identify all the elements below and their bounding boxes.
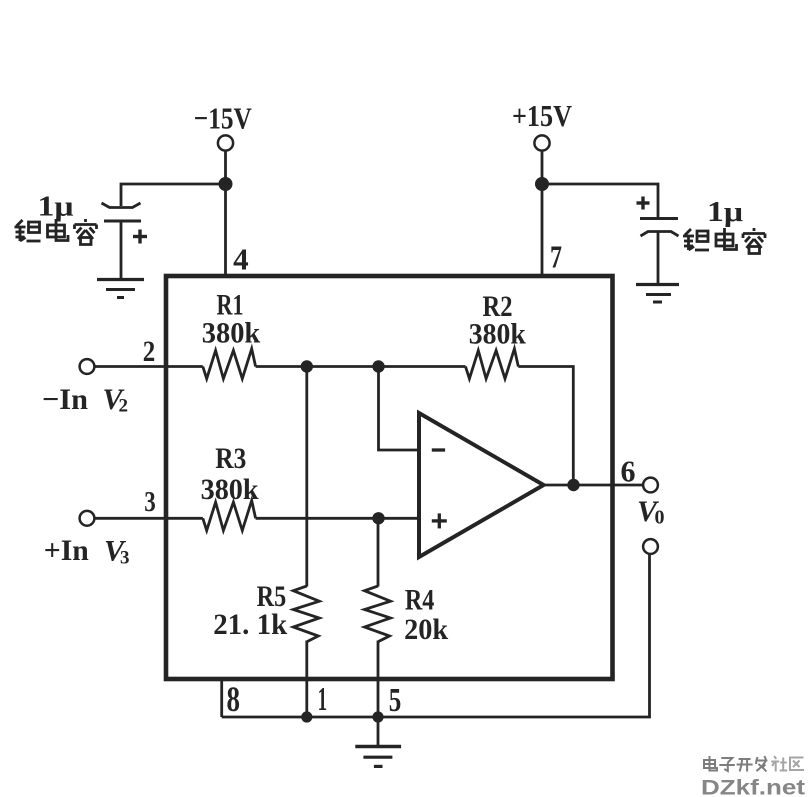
wire R5 to bottom rail: [305, 641, 308, 718]
wire pin2 to R1: [94, 365, 202, 368]
svg-text:+In: +In: [44, 534, 89, 567]
resistor R3: [203, 501, 256, 531]
label R1 value 380k: [202, 317, 261, 350]
watermark text dianzi kaifa shequ (Chinese, gray): [704, 756, 804, 772]
wire op-amp output to pin 6: [544, 484, 644, 487]
ground (left, C1): [97, 280, 144, 298]
label R2: [483, 290, 513, 323]
wire bottom rail to ground: [377, 717, 380, 746]
resistor R4: [365, 586, 391, 642]
wire +15V rail to C2: [542, 184, 658, 218]
svg-text:+15V: +15V: [512, 98, 573, 133]
node C junction: [372, 512, 384, 524]
svg-text:R3: R3: [215, 442, 246, 475]
svg-text:3: 3: [120, 548, 130, 569]
wire C1 to ground: [120, 221, 123, 279]
wire node C down to R4: [377, 518, 380, 586]
wire node A down to R5: [305, 367, 308, 587]
pin 4 label: [233, 242, 249, 277]
svg-text:R4: R4: [405, 584, 435, 617]
wire R4 to bottom rail: [377, 641, 380, 718]
pin 8 label: [227, 679, 241, 719]
pin 2 label: [143, 335, 156, 368]
svg-text:1μ: 1μ: [38, 191, 75, 223]
svg-text:1: 1: [318, 681, 328, 718]
junction R5 bottom rail: [301, 711, 312, 722]
label V0: [637, 495, 665, 529]
label C1 tantalum capacitor (Chinese): [15, 219, 97, 245]
wire node B to op-amp - input: [379, 367, 420, 451]
junction +15V rail: [535, 177, 549, 191]
wire -15V rail to C1: [121, 184, 226, 206]
ground (bottom): [355, 747, 401, 767]
svg-text:0: 0: [655, 507, 665, 529]
label C2 value 1u: [707, 196, 744, 228]
ground (right, C2): [636, 285, 679, 303]
svg-text:20k: 20k: [404, 613, 448, 646]
label R4 value 20k: [404, 613, 448, 646]
svg-text:−In: −In: [42, 383, 88, 416]
label R5: [257, 580, 287, 613]
svg-text:DZkf.net: DZkf.net: [701, 777, 805, 797]
power terminal +15V: [512, 98, 573, 151]
wire R1 to R2 (summing node): [256, 365, 466, 368]
label +In V3: [44, 534, 130, 569]
svg-text:7: 7: [550, 239, 562, 275]
node B junction: [372, 360, 384, 372]
svg-text:380k: 380k: [202, 317, 261, 350]
junction -15V rail: [219, 177, 233, 191]
input terminal pin 3: [80, 511, 95, 526]
wire R3 to op-amp + input: [256, 517, 419, 520]
wire R2 to output node: [518, 367, 573, 486]
pin 7 label: [550, 239, 562, 275]
wire +15V terminal to junction: [541, 151, 544, 184]
label R5 value 21.1k: [213, 608, 287, 641]
resistor R1: [203, 349, 256, 379]
wire -15V terminal to junction: [224, 151, 227, 184]
svg-text:3: 3: [144, 486, 156, 518]
svg-text:−15V: −15V: [194, 101, 252, 136]
IC outline box U1: [166, 276, 613, 679]
pin 1 label: [318, 681, 328, 718]
output node junction: [567, 479, 579, 491]
power terminal -15V: [194, 101, 252, 151]
pin 8 lead: [220, 679, 223, 717]
label R3: [215, 442, 246, 475]
wire C2 to ground: [657, 232, 660, 284]
svg-text:380k: 380k: [201, 473, 259, 506]
pin 4 lead: [224, 184, 227, 276]
label -In V2: [42, 383, 128, 417]
output terminal Vo: [643, 478, 658, 493]
output return terminal: [643, 539, 658, 554]
node A junction: [301, 360, 313, 372]
svg-text:8: 8: [227, 679, 241, 719]
pin 3 label: [144, 486, 156, 518]
svg-text:5: 5: [389, 682, 402, 719]
svg-text:4: 4: [233, 242, 249, 277]
op-amp U1: [419, 413, 544, 557]
label C1 value 1u: [38, 191, 75, 223]
label C2 tantalum capacitor (Chinese): [683, 228, 765, 254]
svg-text:2: 2: [119, 396, 129, 417]
wire return terminal to bottom rail: [222, 554, 650, 717]
label R3 value 380k: [201, 473, 259, 506]
input terminal pin 2: [80, 359, 95, 374]
svg-text:1μ: 1μ: [707, 196, 744, 228]
label R4: [405, 584, 435, 617]
capacitor C2 1u tantalum: [637, 197, 679, 237]
svg-text:6: 6: [621, 454, 636, 489]
label R1: [217, 289, 244, 322]
pin 7 lead: [541, 184, 544, 276]
resistor R2: [466, 349, 519, 379]
svg-text:2: 2: [143, 335, 156, 368]
junction R4 bottom rail: [372, 711, 383, 722]
watermark DZkf.net: [701, 777, 805, 797]
pin 6 label: [621, 454, 636, 489]
resistor R5: [293, 586, 319, 642]
svg-text:21. 1k: 21. 1k: [213, 608, 287, 641]
capacitor C1 1u tantalum: [102, 203, 148, 244]
wire pin3 to R3: [94, 517, 202, 520]
label R2 value 380k: [469, 318, 526, 351]
pin 5 label: [389, 682, 402, 719]
svg-text:380k: 380k: [469, 318, 526, 351]
